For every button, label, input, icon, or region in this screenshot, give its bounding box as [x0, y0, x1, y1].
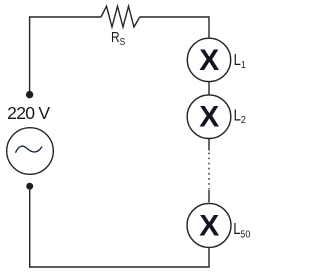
wire left rail top segment	[29, 16, 31, 91]
label L50	[233, 221, 251, 241]
dotted continuation between L2 and L50	[208, 153, 210, 190]
lamp L50 circle	[187, 203, 231, 247]
svg-text:L50: L50	[233, 221, 251, 241]
svg-text:RS: RS	[111, 29, 125, 48]
node dot lower (source -)	[26, 183, 33, 190]
label RS	[111, 29, 125, 48]
svg-text:220 V: 220 V	[7, 103, 50, 123]
wire top-right horizontal	[140, 16, 209, 18]
AC source V1 circle	[7, 128, 54, 175]
label L2	[234, 107, 246, 126]
wire between L1 and L2	[208, 82, 210, 95]
AC sine symbol inside source	[16, 146, 42, 152]
svg-text:X: X	[199, 209, 219, 242]
svg-text:L2: L2	[234, 107, 246, 126]
svg-text:L1: L1	[234, 52, 246, 71]
svg-text:X: X	[199, 44, 219, 77]
node dot upper (source +)	[26, 91, 33, 98]
wire L50 to bottom and bottom horizontal	[30, 247, 209, 267]
svg-text:X: X	[199, 101, 219, 134]
wire top-left horizontal	[30, 16, 101, 18]
wire below L2	[208, 139, 210, 151]
wire left rail bottom segment	[29, 190, 31, 268]
wire right rail to lamp L1	[208, 16, 210, 38]
lamp L1 circle	[187, 38, 230, 81]
resistor RS zigzag	[101, 6, 140, 27]
wire above L50	[208, 190, 210, 203]
label L1	[234, 52, 246, 71]
lamp L2 circle	[187, 95, 231, 139]
